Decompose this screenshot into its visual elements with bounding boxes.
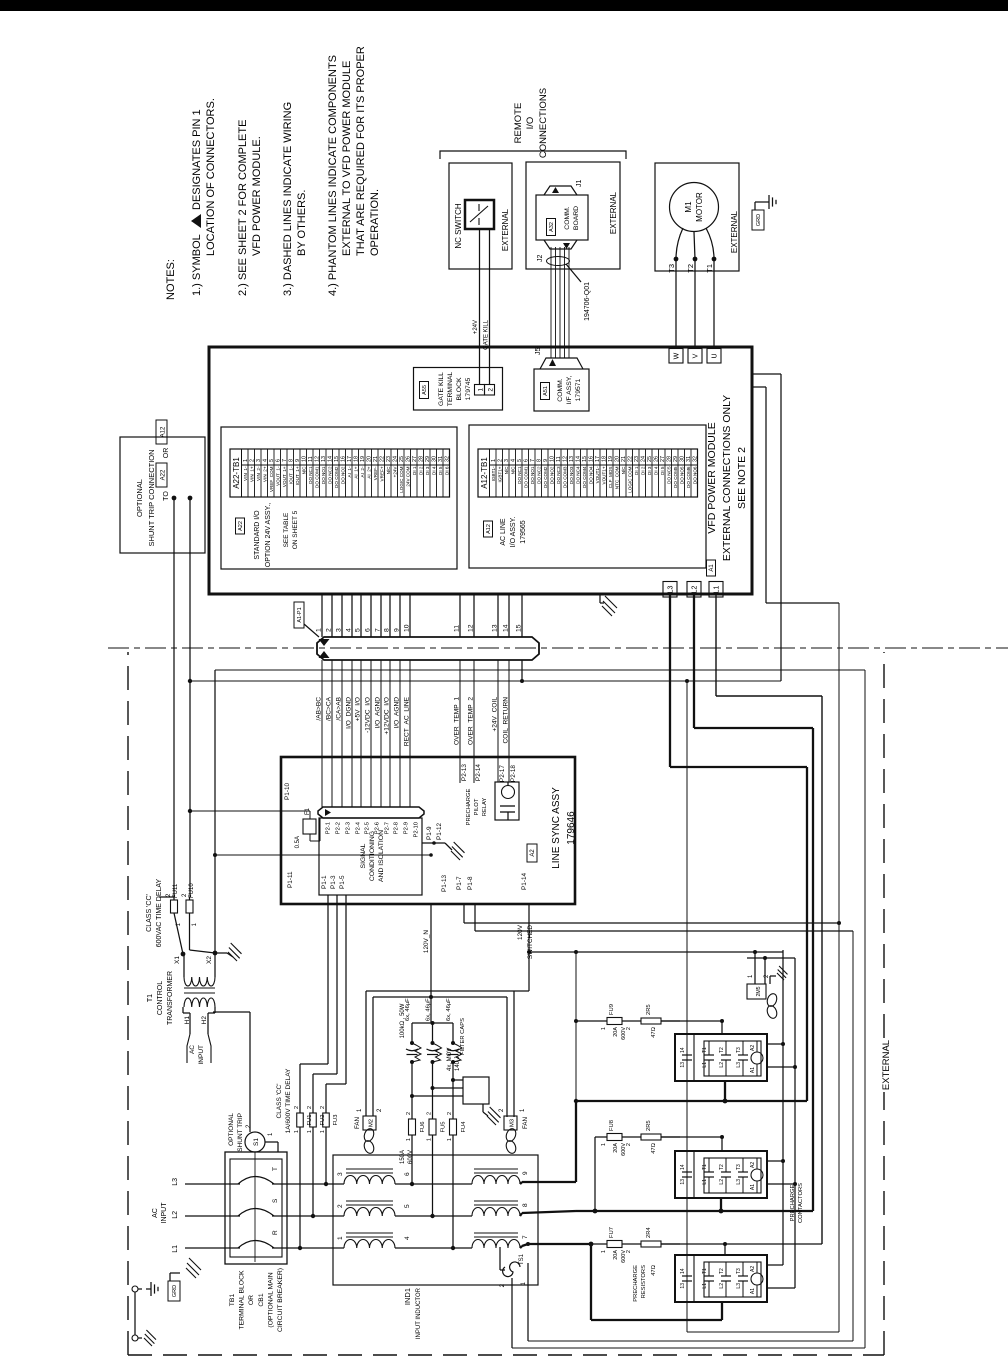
svg-text:P2-10: P2-10	[414, 822, 420, 837]
svg-text:L1: L1	[702, 1283, 708, 1289]
svg-text:M1: M1	[684, 201, 693, 213]
svg-text:4: 4	[346, 628, 353, 632]
svg-text:A22-TB1: A22-TB1	[232, 457, 241, 489]
svg-text:GRD: GRD	[172, 1285, 178, 1297]
svg-text:A2: A2	[750, 1266, 756, 1272]
svg-text:EXTERNAL: EXTERNAL	[609, 191, 618, 234]
svg-text:3: 3	[337, 1172, 344, 1176]
svg-text:DO NC1: DO NC1	[517, 466, 522, 484]
svg-text:EXTERNAL: EXTERNAL	[501, 208, 510, 251]
svg-text:6: 6	[404, 1172, 411, 1176]
svg-text:DO NO1: DO NO1	[530, 466, 535, 484]
svg-text:T2: T2	[686, 264, 695, 273]
svg-text:L3: L3	[736, 1283, 742, 1289]
svg-text:DO NO4: DO NO4	[588, 466, 593, 484]
svg-text:DI 3: DI 3	[647, 466, 652, 475]
svg-text:INPUT: INPUT	[198, 1045, 205, 1065]
svg-text:2: 2	[294, 1106, 300, 1109]
svg-text:IND1: IND1	[403, 1288, 412, 1305]
svg-text:140 J: 140 J	[455, 1056, 461, 1071]
svg-text:P2-4: P2-4	[356, 821, 362, 834]
svg-text:1: 1	[478, 388, 485, 392]
svg-text:LOGIC COM: LOGIC COM	[399, 466, 404, 492]
svg-text:GRD: GRD	[756, 214, 762, 226]
svg-text:P2-5: P2-5	[365, 822, 371, 834]
svg-text:VIN_1-: VIN_1-	[243, 466, 248, 481]
svg-text:OVER_TEMP_2: OVER_TEMP_2	[468, 697, 475, 745]
svg-text:PRECHARGE: PRECHARGE	[466, 789, 472, 826]
svg-text:179571: 179571	[575, 378, 582, 401]
svg-text:12: 12	[468, 624, 475, 632]
svg-text:L3: L3	[736, 1062, 742, 1068]
svg-text:T3: T3	[736, 1164, 742, 1170]
svg-text:VFD POWER MODULE: VFD POWER MODULE	[706, 422, 718, 533]
svg-text:I/O_DGND: I/O_DGND	[346, 697, 353, 729]
svg-text:X1: X1	[174, 956, 181, 964]
svg-text:TS1: TS1	[519, 1253, 525, 1265]
svg-text:CONTACTORS: CONTACTORS	[798, 1183, 804, 1223]
svg-text:A2: A2	[750, 1045, 756, 1051]
svg-text:120V_N: 120V_N	[423, 930, 430, 953]
svg-text:P2-2: P2-2	[336, 822, 342, 834]
svg-text:DI 4: DI 4	[653, 466, 658, 475]
svg-text:L1: L1	[702, 1062, 708, 1068]
svg-text:1: 1	[406, 1138, 412, 1141]
svg-text:/BC>CA: /BC>CA	[326, 696, 333, 721]
svg-text:FU6: FU6	[420, 1122, 426, 1133]
svg-text:COMM.: COMM.	[564, 206, 571, 230]
svg-text:I/O_AGND: I/O_AGND	[394, 697, 401, 729]
svg-text:L3: L3	[736, 1179, 742, 1185]
svg-text:N/C: N/C	[510, 466, 515, 475]
svg-text:179745: 179745	[465, 377, 472, 400]
svg-text:+24V: +24V	[473, 320, 479, 334]
svg-text:DO NC2: DO NC2	[536, 466, 541, 484]
svg-text:CIRCUIT BREAKER): CIRCUIT BREAKER)	[277, 1268, 284, 1332]
svg-text:J1: J1	[576, 180, 583, 188]
svg-text:FU11: FU11	[173, 883, 179, 898]
svg-text:PRECHARGE: PRECHARGE	[633, 1265, 639, 1302]
svg-text:I/O: I/O	[525, 117, 536, 130]
svg-text:VOUT1+: VOUT1+	[601, 466, 606, 484]
svg-text:DI 6: DI 6	[444, 466, 449, 475]
svg-text:OVER_TEMP_1: OVER_TEMP_1	[454, 697, 461, 745]
svg-text:DO NC2: DO NC2	[327, 466, 332, 484]
svg-text:PILOT: PILOT	[474, 798, 480, 815]
svg-text:600V: 600V	[621, 1250, 627, 1263]
svg-text:INPUT: INPUT	[161, 1202, 168, 1224]
svg-text:IGBT1+: IGBT1+	[497, 466, 502, 482]
svg-text:LOCATION OF CONNECTORS.: LOCATION OF CONNECTORS.	[205, 98, 217, 256]
svg-text:1: 1	[337, 1236, 344, 1240]
svg-text:N/C: N/C	[301, 466, 306, 475]
svg-text:T2: T2	[719, 1047, 725, 1053]
svg-text:2R5: 2R5	[646, 1120, 652, 1131]
svg-text:8: 8	[384, 628, 391, 632]
svg-text:P1-10: P1-10	[284, 783, 291, 800]
svg-text:RELAY: RELAY	[482, 798, 488, 817]
svg-text:+24V: +24V	[392, 466, 397, 478]
svg-text:P2-6: P2-6	[375, 822, 381, 834]
svg-text:AI_1+: AI_1+	[353, 466, 358, 478]
svg-text:20A: 20A	[613, 1027, 619, 1037]
svg-text:P1-11: P1-11	[287, 871, 294, 888]
svg-text:600V: 600V	[621, 1143, 627, 1156]
svg-text:P1-13: P1-13	[441, 875, 448, 892]
svg-text:CONNECTIONS: CONNECTIONS	[538, 88, 549, 158]
svg-text:V: V	[693, 353, 700, 358]
svg-text:2R5: 2R5	[646, 1004, 652, 1015]
svg-text:EXTERNAL: EXTERNAL	[730, 210, 739, 253]
svg-text:I/O_AGND: I/O_AGND	[375, 697, 382, 729]
svg-text:VREF_COM: VREF_COM	[269, 466, 274, 492]
svg-text:FU3: FU3	[333, 1115, 339, 1126]
svg-text:P2-18: P2-18	[510, 765, 517, 782]
svg-text:T2: T2	[719, 1268, 725, 1274]
svg-text:DO COM3: DO COM3	[562, 466, 567, 488]
svg-text:SEE TABLE: SEE TABLE	[283, 512, 290, 547]
svg-text:10: 10	[404, 624, 411, 632]
svg-text:TO: TO	[163, 491, 170, 501]
svg-text:N/C: N/C	[621, 466, 626, 475]
svg-text:SHUNT TRIP: SHUNT TRIP	[237, 1113, 244, 1152]
svg-text:A1: A1	[709, 564, 715, 572]
svg-text:VIN_2-: VIN_2-	[256, 466, 261, 481]
svg-text:DO NO5: DO NO5	[679, 466, 684, 484]
svg-text:FU8: FU8	[609, 1120, 615, 1131]
svg-text:DI 2: DI 2	[640, 466, 645, 475]
svg-text:OPTION 24V ASSY.,: OPTION 24V ASSY.,	[265, 503, 272, 568]
svg-text:FILTER CAPS: FILTER CAPS	[460, 1018, 466, 1055]
svg-text:L3: L3	[172, 1178, 179, 1186]
svg-text:DO COM5: DO COM5	[673, 466, 678, 488]
svg-text:TRANSFORMER: TRANSFORMER	[167, 971, 174, 1025]
svg-text:2: 2	[406, 1112, 412, 1115]
svg-text:MOTOR: MOTOR	[695, 192, 704, 222]
svg-text:P1-12: P1-12	[436, 823, 443, 840]
svg-text:P2-9: P2-9	[404, 822, 410, 834]
svg-text:179565: 179565	[520, 520, 527, 543]
svg-text:L3: L3	[668, 586, 675, 594]
svg-text:BLOCK: BLOCK	[456, 377, 463, 401]
svg-text:A32: A32	[549, 222, 555, 232]
svg-text:RESISTORS: RESISTORS	[641, 1265, 647, 1299]
svg-text:P1-9: P1-9	[426, 826, 433, 840]
svg-text:8: 8	[522, 1203, 529, 1207]
svg-text:DO COM4: DO COM4	[582, 466, 587, 488]
svg-text:47Ω: 47Ω	[651, 1026, 657, 1037]
svg-text:AI_2-: AI_2-	[360, 466, 365, 477]
svg-text:T3: T3	[736, 1268, 742, 1274]
svg-text:47Ω: 47Ω	[651, 1264, 657, 1275]
svg-text:A12-TB1: A12-TB1	[480, 457, 489, 489]
svg-text:14: 14	[680, 1268, 686, 1274]
svg-text:T: T	[272, 1167, 279, 1171]
svg-text:+5V_I/O: +5V_I/O	[355, 697, 362, 721]
svg-text:14: 14	[680, 1164, 686, 1170]
svg-text:1: 1	[601, 1250, 607, 1253]
svg-text:T3: T3	[736, 1047, 742, 1053]
svg-text:6x, 46µF: 6x, 46µF	[446, 998, 452, 1021]
svg-text:TERMINAL BLOCK: TERMINAL BLOCK	[239, 1270, 246, 1330]
svg-text:J2: J2	[537, 255, 544, 263]
svg-text:DO NC5: DO NC5	[666, 466, 671, 484]
svg-text:-12VDC_I/O: -12VDC_I/O	[365, 697, 372, 733]
svg-text:P1-8: P1-8	[467, 876, 474, 890]
svg-text:L2: L2	[719, 1179, 725, 1185]
svg-text:5: 5	[404, 1204, 411, 1208]
svg-text:(OPTIONAL MAIN: (OPTIONAL MAIN	[267, 1272, 274, 1327]
svg-text:2: 2	[427, 1112, 433, 1115]
svg-text:A2: A2	[750, 1162, 756, 1168]
svg-text:AC LINE: AC LINE	[500, 518, 507, 546]
svg-text:OR: OR	[248, 1295, 255, 1305]
svg-text:SEE NOTE 2: SEE NOTE 2	[736, 447, 748, 509]
svg-text:9: 9	[394, 628, 401, 632]
svg-text:S: S	[272, 1198, 279, 1203]
svg-text:FU7: FU7	[609, 1227, 615, 1238]
svg-text:EXTERNAL TO VFD POWER MODU: EXTERNAL TO VFD POWER MODULE	[341, 61, 353, 256]
svg-text:FU4: FU4	[461, 1121, 467, 1133]
svg-text:P1-3: P1-3	[330, 875, 337, 889]
svg-text:7: 7	[522, 1235, 529, 1239]
svg-text:THAT ARE REQUIRED FOR ITS: THAT ARE REQUIRED FOR ITS PROPER	[355, 46, 367, 256]
svg-text:AC: AC	[189, 1045, 196, 1054]
svg-text:DI 4: DI 4	[431, 466, 436, 475]
svg-text:1: 1	[447, 1138, 453, 1141]
svg-text:P2-13: P2-13	[461, 764, 468, 781]
svg-text:STANDARD I/O: STANDARD I/O	[254, 510, 261, 560]
svg-text:DI 1: DI 1	[634, 466, 639, 475]
svg-text:2: 2	[447, 1112, 453, 1115]
svg-text:/AB>BC: /AB>BC	[316, 697, 323, 721]
svg-text:P1-7: P1-7	[456, 876, 463, 890]
svg-text:P2-7: P2-7	[385, 822, 391, 834]
svg-text:DO NC4: DO NC4	[575, 466, 580, 484]
svg-text:I/O ASSY.: I/O ASSY.	[510, 517, 517, 548]
svg-text:9: 9	[522, 1171, 529, 1175]
svg-text:L2: L2	[719, 1062, 725, 1068]
svg-text:SHUNT TRIP CONNECTION: SHUNT TRIP CONNECTION	[147, 449, 156, 546]
svg-text:OPTIONAL: OPTIONAL	[228, 1113, 235, 1146]
svg-text:DO NC3: DO NC3	[556, 466, 561, 484]
svg-text:FU10: FU10	[189, 883, 195, 898]
svg-text:LOGIC COM: LOGIC COM	[627, 466, 632, 492]
svg-text:U: U	[712, 353, 719, 358]
svg-text:DO COM1: DO COM1	[314, 466, 319, 488]
svg-text:TERMINAL: TERMINAL	[447, 372, 454, 407]
svg-text:OPTIONAL: OPTIONAL	[135, 479, 144, 517]
svg-text:VIN_2+: VIN_2+	[262, 466, 267, 482]
svg-text:CLASS 'CC': CLASS 'CC'	[276, 1084, 283, 1119]
svg-text:A1: A1	[750, 1184, 756, 1190]
svg-text:P2-3: P2-3	[346, 822, 352, 834]
svg-text:CB1: CB1	[258, 1293, 265, 1306]
svg-text:DESIGNATES PIN 1: DESIGNATES PIN 1	[191, 109, 203, 210]
svg-text:T1: T1	[702, 1268, 708, 1274]
svg-text:2: 2	[320, 1106, 326, 1109]
svg-text:F1: F1	[305, 807, 311, 815]
svg-text:S1: S1	[253, 1138, 260, 1146]
svg-text:P1-5: P1-5	[339, 875, 346, 889]
svg-text:AND ISOLATION: AND ISOLATION	[378, 830, 385, 882]
svg-text:A12: A12	[161, 426, 167, 437]
svg-text:A12: A12	[486, 524, 492, 534]
svg-text:1: 1	[294, 1130, 300, 1133]
svg-text:TB1: TB1	[229, 1294, 236, 1307]
svg-text:L1: L1	[172, 1245, 179, 1253]
svg-text:DO NO1: DO NO1	[321, 466, 326, 484]
svg-text:2: 2	[326, 628, 333, 632]
svg-text:CONDITIONING: CONDITIONING	[369, 831, 376, 881]
svg-text:150A: 150A	[400, 1150, 406, 1164]
svg-text:L2: L2	[172, 1211, 179, 1219]
svg-text:1: 1	[601, 1027, 607, 1030]
svg-text:X2: X2	[206, 956, 213, 964]
svg-text:N/C: N/C	[504, 466, 509, 475]
svg-text:13: 13	[680, 1283, 686, 1289]
svg-text:P2-17: P2-17	[499, 765, 506, 782]
svg-text:RECT_AC_LINE: RECT_AC_LINE	[404, 696, 411, 746]
svg-text:T1: T1	[702, 1164, 708, 1170]
svg-text:2: 2	[337, 1204, 344, 1208]
svg-text:32: 32	[445, 456, 451, 462]
svg-text:CONTROL: CONTROL	[157, 981, 164, 1015]
svg-text:COIL_RETURN: COIL_RETURN	[503, 697, 510, 744]
svg-text:14: 14	[680, 1047, 686, 1053]
svg-text:4x, MOV: 4x, MOV	[447, 1048, 453, 1071]
svg-text:DO NO2: DO NO2	[340, 466, 345, 484]
svg-text:FAN: FAN	[354, 1117, 361, 1129]
svg-text:0.5A: 0.5A	[295, 836, 301, 848]
svg-text:1.) SYMBOL: 1.) SYMBOL	[191, 234, 203, 296]
svg-text:P2-14: P2-14	[475, 764, 482, 781]
svg-text:3.) DASHED LINES INDICATE: 3.) DASHED LINES INDICATE WIRING	[282, 102, 294, 296]
svg-text:EXTERNAL: EXTERNAL	[881, 1040, 892, 1090]
svg-text:GATE KILL: GATE KILL	[438, 372, 445, 406]
svg-text:2M5: 2M5	[756, 986, 762, 996]
svg-text:DO COM2: DO COM2	[543, 466, 548, 488]
svg-text:L1: L1	[702, 1179, 708, 1185]
svg-text:6x, 46µF: 6x, 46µF	[426, 998, 432, 1021]
svg-text:15: 15	[516, 624, 523, 632]
svg-text:T1: T1	[705, 264, 714, 273]
svg-text:H1: H1	[184, 1016, 191, 1025]
svg-text:14: 14	[503, 624, 510, 632]
svg-text:DO NO6: DO NO6	[692, 466, 697, 484]
svg-text:GATE KILL: GATE KILL	[484, 319, 490, 350]
svg-text:1: 1	[601, 1143, 607, 1146]
svg-text:REMOTE: REMOTE	[513, 103, 524, 144]
svg-text:P1-1: P1-1	[321, 875, 328, 889]
svg-text:2.) SEE SHEET 2 FOR COMPL: 2.) SEE SHEET 2 FOR COMPLETE	[237, 120, 249, 296]
svg-text:+12VDC_I/O: +12VDC_I/O	[384, 697, 391, 735]
svg-text:P1-14: P1-14	[521, 873, 528, 890]
svg-text:NC SWITCH: NC SWITCH	[454, 203, 463, 249]
svg-text:SWITCHED: SWITCHED	[527, 925, 534, 959]
svg-text:CLASS 'CC': CLASS 'CC'	[146, 894, 153, 932]
svg-text:INPUT INDUCTOR: INPUT INDUCTOR	[416, 1287, 422, 1339]
svg-text:M2: M2	[369, 1119, 375, 1127]
svg-text:600VAC TIME DELAY: 600VAC TIME DELAY	[156, 878, 163, 947]
svg-text:A55: A55	[422, 385, 428, 395]
svg-text:H2: H2	[201, 1016, 208, 1025]
svg-text:20A: 20A	[613, 1143, 619, 1153]
svg-text:BY OTHERS.: BY OTHERS.	[296, 190, 308, 256]
svg-text:N/C: N/C	[386, 466, 391, 475]
svg-text:T1: T1	[147, 994, 154, 1002]
svg-text:DO NC1: DO NC1	[308, 466, 313, 484]
svg-text:179646: 179646	[566, 811, 577, 845]
svg-text:OR: OR	[163, 448, 170, 459]
svg-text:2R4: 2R4	[646, 1227, 652, 1238]
svg-text:600V: 600V	[621, 1027, 627, 1040]
svg-text:32: 32	[693, 456, 699, 462]
svg-text:1: 1	[307, 1130, 313, 1133]
svg-text:DI 5: DI 5	[438, 466, 443, 475]
svg-text:A22: A22	[238, 521, 244, 531]
svg-text:13: 13	[680, 1179, 686, 1185]
svg-text:5: 5	[355, 628, 362, 632]
svg-text:VREF+: VREF+	[379, 466, 384, 481]
svg-text:1: 1	[320, 1130, 326, 1133]
svg-text:/CA>AB: /CA>AB	[336, 696, 343, 720]
svg-text:EXTERNAL CONNECTIONS ONLY: EXTERNAL CONNECTIONS ONLY	[721, 395, 733, 561]
svg-text:T2: T2	[719, 1164, 725, 1170]
svg-text:IGBT1-: IGBT1-	[491, 466, 496, 481]
svg-text:A1: A1	[750, 1288, 756, 1294]
svg-text:194706-Q01: 194706-Q01	[584, 282, 591, 321]
svg-text:IOUT_1-: IOUT_1-	[288, 466, 293, 484]
svg-text:NOTES:: NOTES:	[165, 259, 177, 300]
svg-text:DO NO3: DO NO3	[569, 466, 574, 484]
svg-text:13: 13	[492, 624, 499, 632]
svg-text:FAN: FAN	[522, 1117, 529, 1129]
svg-text:7: 7	[375, 628, 382, 632]
svg-text:DI 5: DI 5	[660, 466, 665, 475]
svg-text:47Ω: 47Ω	[651, 1142, 657, 1153]
svg-text:FU5: FU5	[441, 1122, 447, 1133]
svg-text:DO COM6: DO COM6	[686, 466, 691, 488]
svg-text:W: W	[674, 352, 681, 359]
svg-text:4: 4	[404, 1236, 411, 1240]
svg-text:P2-8: P2-8	[394, 822, 400, 834]
svg-text:COMM.: COMM.	[557, 378, 564, 402]
svg-text:24V COM: 24V COM	[405, 466, 410, 486]
svg-text:1: 1	[427, 1138, 433, 1141]
svg-text:DI 1: DI 1	[412, 466, 417, 475]
svg-text:BOARD: BOARD	[573, 206, 580, 230]
svg-text:VREF-: VREF-	[373, 466, 378, 480]
svg-text:A1: A1	[750, 1067, 756, 1073]
svg-text:4.) PHANTOM LINES INDICATE: 4.) PHANTOM LINES INDICATE COMPONENTS	[327, 55, 339, 296]
svg-text:VIN_1+: VIN_1+	[249, 466, 254, 482]
svg-text:VFD POWER MODULE.: VFD POWER MODULE.	[251, 136, 263, 256]
svg-text:ON SHEET 5: ON SHEET 5	[292, 510, 299, 549]
svg-text:T1: T1	[702, 1047, 708, 1053]
svg-text:6: 6	[365, 628, 372, 632]
svg-text:M3: M3	[510, 1119, 516, 1127]
svg-text:FU9: FU9	[609, 1004, 615, 1015]
svg-text:DI 2: DI 2	[418, 466, 423, 475]
svg-text:L1: L1	[714, 586, 721, 594]
svg-text:11: 11	[454, 625, 461, 632]
svg-text:LINE SYNC ASSY: LINE SYNC ASSY	[551, 787, 562, 869]
svg-text:100kΩ , 50W: 100kΩ , 50W	[400, 1003, 406, 1038]
svg-text:AC: AC	[152, 1208, 159, 1218]
svg-text:T3: T3	[667, 264, 676, 273]
svg-text:AI_1-: AI_1-	[347, 466, 352, 477]
